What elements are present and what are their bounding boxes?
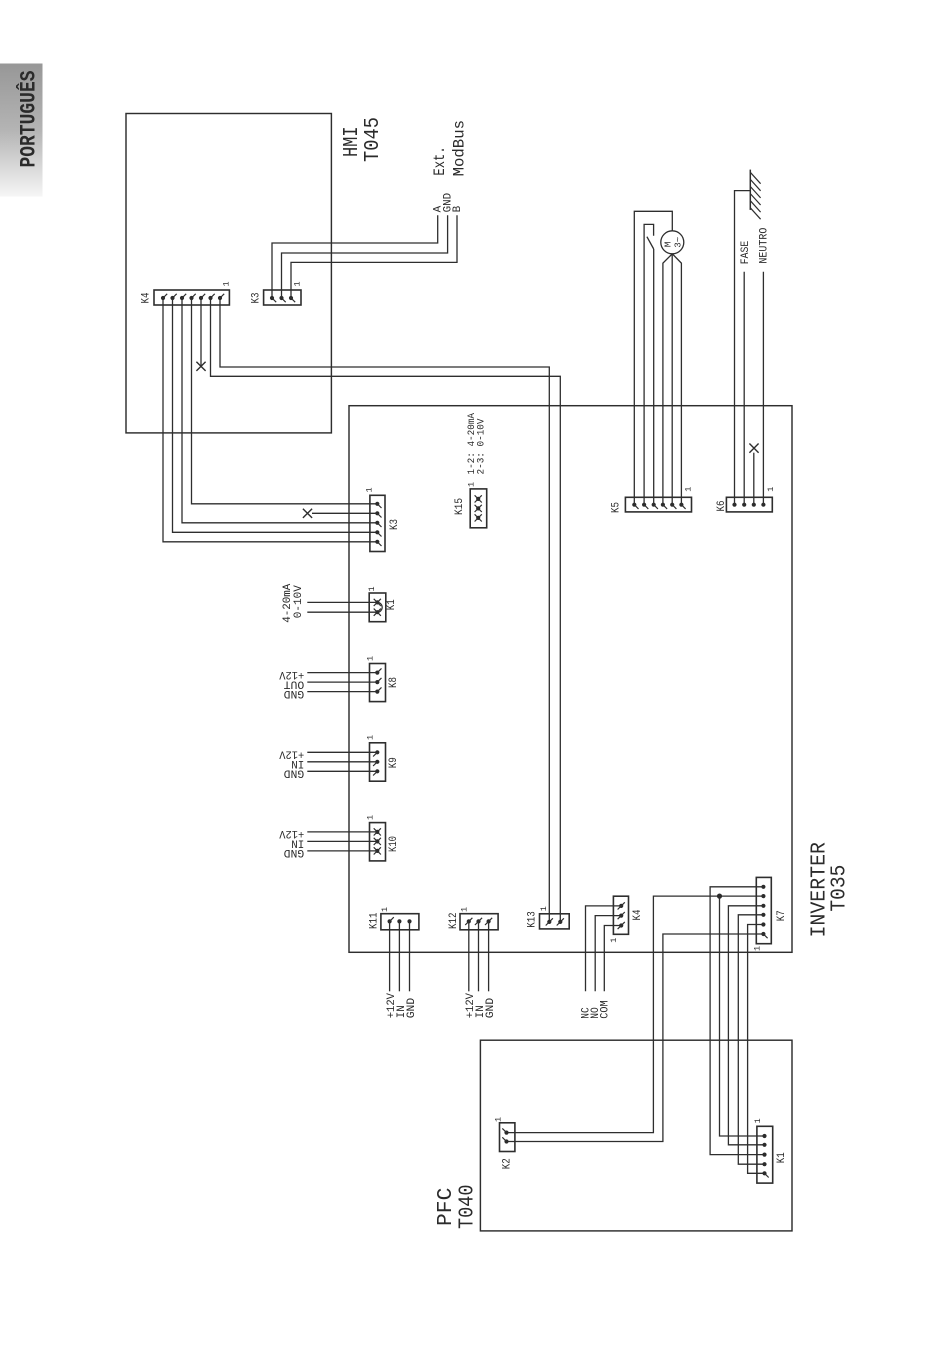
wire K7.4 to K1(PFC).2 — [728, 906, 764, 1145]
wire K4.3 unconnected — [200, 298, 202, 366]
connector K1 (PFC) — [757, 1126, 773, 1183]
wire K4(INV).2 to NO — [595, 916, 621, 992]
svg-text:1: 1 — [364, 487, 374, 492]
wire K4.5 to K3(INV).3 — [182, 298, 377, 523]
svg-text:PORTUGUÊS: PORTUGUÊS — [16, 70, 41, 167]
connector K3 (INVERTER) — [370, 495, 385, 551]
junction dot on K7.5 wire — [717, 894, 722, 899]
no-connect X mark at K6.2 — [749, 444, 758, 453]
svg-text:1: 1 — [539, 906, 549, 911]
wire K12.2 to IN — [478, 921, 480, 991]
wire K7.2 to K1(PFC).5 — [748, 925, 765, 1174]
connector K6 — [726, 497, 772, 512]
svg-text:1: 1 — [766, 487, 776, 492]
svg-text:1: 1 — [609, 938, 619, 943]
wire IN to K9.2 — [307, 761, 377, 763]
svg-text:K5: K5 — [610, 502, 622, 513]
svg-text:Ext.: Ext. — [431, 146, 449, 175]
svg-text:K4: K4 — [140, 292, 152, 303]
connector K11 — [381, 914, 419, 930]
wire K4(INV).3 to COM — [604, 926, 621, 992]
svg-text:NEUTRO: NEUTRO — [758, 227, 770, 263]
svg-text:T035: T035 — [828, 865, 851, 912]
svg-text:B: B — [452, 205, 464, 212]
wire 0-10V to K1(INV).2 — [307, 611, 377, 613]
svg-text:K3: K3 — [250, 293, 262, 304]
wire 4-20mA to K1(INV).1 — [307, 601, 377, 603]
svg-text:1: 1 — [365, 656, 375, 661]
svg-text:1: 1 — [459, 907, 469, 912]
wire K4.1 to K13.1 — [220, 298, 549, 922]
connector K4 (HMI) — [154, 290, 229, 305]
wire K5.1 to motor phase right — [672, 254, 681, 505]
switch blade (motor thermal contact) — [647, 237, 654, 249]
wire K5.2 to motor phase centre — [671, 254, 673, 505]
wire K11.2 to IN — [398, 921, 400, 991]
svg-text:GND: GND — [283, 767, 304, 779]
svg-text:GND: GND — [283, 846, 304, 858]
wire K4.2 to K13.2 — [211, 298, 561, 922]
block PFC T040 outline — [480, 1040, 792, 1231]
no-connect X mark at K4.3 — [196, 362, 205, 371]
wire K4.6 to K3(INV).4 — [173, 298, 378, 532]
wire junction to K1(PFC).1 — [720, 896, 765, 1136]
wire K3.2 to GND — [282, 215, 448, 298]
connector K7 — [756, 877, 771, 943]
svg-text:1: 1 — [366, 815, 376, 820]
svg-text:1: 1 — [380, 907, 390, 912]
wire K6.1 NEUTRO — [762, 272, 764, 505]
svg-text:GND: GND — [406, 997, 418, 1018]
svg-text:FASE: FASE — [740, 240, 752, 264]
svg-text:K2: K2 — [501, 1158, 513, 1169]
svg-text:T045: T045 — [362, 117, 385, 162]
connector K4 (INVERTER) — [613, 896, 628, 934]
wire IN to K10.2 — [307, 840, 377, 842]
svg-text:K4: K4 — [632, 909, 644, 920]
svg-text:T040: T040 — [456, 1185, 479, 1230]
block INVERTER T035 outline — [349, 406, 792, 953]
svg-text:K13: K13 — [527, 911, 539, 928]
wire K6.4 to earth — [735, 191, 751, 505]
wire K4.7 to K3(INV).5 — [163, 298, 377, 542]
wire K5.4 to switch blade — [653, 249, 655, 505]
svg-text:K8: K8 — [388, 677, 400, 688]
connector K13 — [540, 914, 570, 929]
wire K4(INV).1 to NC — [586, 906, 622, 991]
no-connect X mark at K3(INV).2 — [303, 509, 312, 518]
svg-text:1: 1 — [467, 482, 477, 487]
svg-text:K1: K1 — [386, 599, 398, 610]
connector K8 — [370, 664, 386, 702]
wire K5.5 to switch fixed contact — [644, 224, 654, 504]
connector K2 (PFC) — [500, 1123, 515, 1152]
connector K3 (HMI) — [264, 290, 301, 305]
svg-text:1: 1 — [366, 735, 376, 740]
svg-text:PFC: PFC — [435, 1188, 458, 1226]
wire GND to K8.3 — [307, 691, 377, 693]
wire K3.3 to B — [291, 215, 457, 298]
svg-text:2-3: 0-10V: 2-3: 0-10V — [476, 418, 488, 475]
svg-text:1: 1 — [292, 281, 302, 286]
svg-text:K3: K3 — [389, 519, 401, 530]
svg-text:K9: K9 — [388, 757, 400, 768]
svg-text:K15: K15 — [454, 498, 466, 515]
wire K5.3 to motor phase left — [663, 254, 672, 505]
svg-text:K7: K7 — [776, 910, 788, 921]
svg-text:0-10V: 0-10V — [293, 585, 305, 618]
svg-text:1: 1 — [753, 1118, 763, 1123]
wire K4.4 to K3(INV).1 — [192, 298, 378, 504]
wire K12.1 to +12V — [468, 921, 470, 991]
connector K10 — [370, 823, 386, 861]
wire GND to K9.3 — [307, 770, 377, 772]
wire K6.3 FASE — [743, 272, 745, 505]
wire K3.1 to A — [272, 215, 438, 298]
connector K12 — [460, 914, 498, 930]
wire OUT to K8.2 — [307, 681, 377, 683]
wire K7.5 to K2(PFC).1 — [507, 896, 764, 1133]
svg-text:1: 1 — [683, 487, 693, 492]
svg-text:HMI: HMI — [341, 127, 364, 158]
wire K7.3 to K1(PFC).4 — [738, 915, 764, 1164]
earth ground symbol — [750, 170, 760, 220]
svg-text:1: 1 — [752, 946, 762, 951]
wire GND to K10.3 — [307, 850, 377, 852]
wire +12V to K8.1 — [307, 672, 377, 674]
motor M 3~ — [661, 231, 684, 254]
svg-text:1: 1 — [367, 586, 377, 591]
wire K7.1 to K2(PFC).2 — [507, 934, 764, 1142]
svg-text:COM: COM — [600, 1000, 612, 1018]
svg-text:K6: K6 — [716, 501, 728, 512]
block HMI T045 outline — [126, 114, 331, 433]
svg-text:K10: K10 — [388, 836, 400, 852]
svg-text:1: 1 — [221, 281, 231, 286]
svg-text:K11: K11 — [368, 912, 380, 929]
wire K11.1 to +12V — [389, 921, 391, 991]
wire K5.6 to motor top — [634, 211, 672, 504]
language tab PORTUGUÊS — [0, 64, 43, 197]
svg-text:GND: GND — [283, 687, 304, 699]
connector K9 — [370, 743, 386, 781]
wire +12V to K10.1 — [307, 831, 377, 833]
svg-text:K12: K12 — [448, 913, 460, 930]
svg-text:1: 1 — [493, 1117, 503, 1122]
svg-text:ModBus: ModBus — [450, 120, 468, 176]
svg-text:3~: 3~ — [672, 237, 683, 248]
jumper connector K15 — [470, 489, 487, 528]
wire +12V to K9.1 — [307, 751, 377, 753]
svg-text:K1: K1 — [776, 1152, 788, 1163]
wire K3(INV).2 unconnected — [312, 512, 377, 514]
wire K12.3 to GND — [488, 921, 490, 991]
wire K7.6 to K1(PFC).3 — [710, 887, 764, 1155]
svg-text:GND: GND — [485, 997, 497, 1018]
wire K11.3 to GND — [409, 921, 411, 991]
wire K6.2 unconnected — [753, 453, 755, 505]
jumper connector K1 (INVERTER) — [369, 593, 386, 622]
connector K5 — [625, 497, 691, 512]
